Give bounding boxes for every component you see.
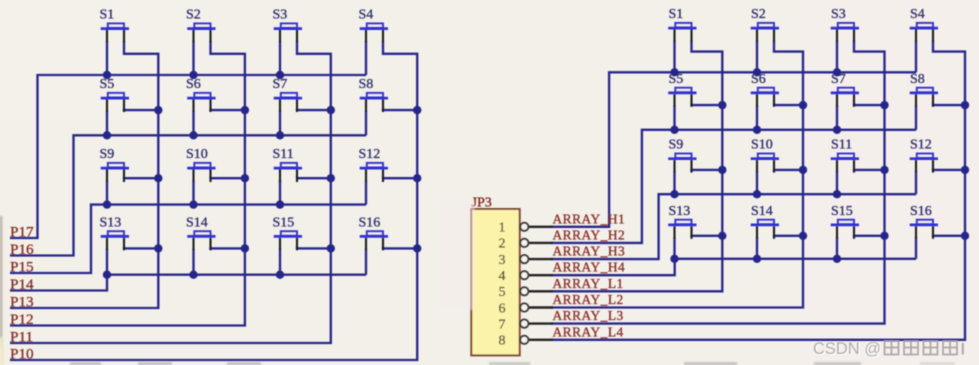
junction: column 3 / S7 elbow (right) (880, 101, 888, 109)
push-button switch S2 (left matrix) (186, 8, 216, 43)
svg-text:4: 4 (499, 269, 506, 284)
watermark text (813, 340, 963, 358)
svg-text:S10: S10 (186, 147, 208, 162)
svg-text:S2: S2 (751, 7, 766, 22)
JP3 pin 3 open-circle terminal (520, 255, 528, 263)
wire: S11 (left) left pin to row 3 wire (279, 181, 281, 205)
junction: row 1 wire / S3 left pin (right) (833, 68, 841, 76)
push-button switch S5 (left matrix) (100, 77, 130, 112)
push-button switch S4 (left matrix) (359, 8, 389, 43)
wire: net ARRAY_L3 - column 3 vertical from S3 elbow down to JP3 pin7 (551, 41, 885, 324)
wire: S15 (right) left pin to row 4 wire (836, 237, 838, 258)
junction: column 1 / S13 elbow (right) (718, 232, 726, 240)
svg-text:S1: S1 (100, 8, 115, 23)
wire: net P15 - row 3 horizontal, left drop to P15 stub (10, 205, 366, 273)
wire: S14 (left) left pin to row 4 wire (192, 249, 194, 275)
push-button switch S1 (right matrix) (668, 7, 696, 42)
svg-text:ARRAY_H2: ARRAY_H2 (553, 227, 626, 242)
svg-text:S12: S12 (359, 147, 381, 162)
junction: row 2 wire / S7 left pin (right) (833, 126, 841, 134)
wire: S16 (right) left pin to row 4 wire (915, 237, 917, 258)
svg-text:S13: S13 (100, 215, 122, 230)
wire: S10 (left) left pin to row 3 wire (192, 181, 194, 205)
wire: S13 (left) left pin to row 4 wire (106, 249, 108, 275)
wire: S3 (right) left pin to row 1 wire (836, 41, 838, 73)
svg-text:S15: S15 (273, 215, 295, 230)
svg-text:ARRAY_H4: ARRAY_H4 (553, 260, 626, 275)
wire: S6 (left) left pin to row 2 wire (192, 111, 194, 136)
svg-text:S15: S15 (831, 204, 853, 219)
wire: net P17 - row 1 horizontal, left drop to P17 stub (10, 75, 366, 238)
wire: S7 (right) left pin to row 2 wire (836, 105, 838, 130)
svg-text:P13: P13 (10, 294, 34, 311)
svg-text:ARRAY_L2: ARRAY_L2 (553, 292, 624, 307)
wire: S14 (left) right pin elbow to column 2 (211, 247, 245, 249)
wire: S5 (right) left pin to row 2 wire (673, 105, 675, 130)
junction: row 2 wire / S5 left pin (left) (103, 131, 111, 139)
JP3 pin 3 stub (528, 258, 553, 260)
wire: S8 (right) right pin elbow to column 4 (933, 103, 965, 105)
JP3 pin 2 open-circle terminal (520, 239, 528, 247)
svg-text:S7: S7 (273, 77, 288, 92)
push-button switch S9 (right matrix) (668, 138, 696, 173)
junction: row 4 wire / S14 left pin (right) (753, 255, 761, 263)
junction: column 2 / S6 elbow (right) (799, 101, 807, 109)
push-button switch S15 (right matrix) (831, 204, 859, 239)
wire: S11 (left) right pin elbow to column 3 (297, 177, 331, 180)
svg-text:S10: S10 (751, 138, 773, 153)
svg-text:S13: S13 (669, 204, 691, 219)
wire: net ARRAY_H2 - from JP3 pin2 to row 2 horizontal (551, 130, 916, 243)
wire: S15 (left) left pin to row 4 wire (279, 249, 281, 275)
junction: column 3 / S7 elbow (left) (327, 106, 335, 114)
wire: S6 (right) right pin elbow to column 2 (774, 103, 803, 105)
JP3 pin 8 open-circle terminal (520, 336, 528, 344)
push-button switch S14 (right matrix) (751, 204, 779, 239)
wire: S14 (right) left pin to row 4 wire (756, 237, 758, 258)
wire: S3 (left) left pin to row 1 wire (279, 41, 281, 75)
push-button switch S4 (right matrix) (910, 7, 938, 42)
wire: S12 (left) right pin elbow to column 4 (383, 177, 417, 180)
junction: row 3 wire / S11 left pin (left) (276, 200, 284, 208)
JP3 pin 7 stub (528, 322, 553, 324)
svg-text:S8: S8 (359, 77, 374, 92)
svg-text:P10: P10 (10, 346, 34, 363)
svg-text:S16: S16 (359, 215, 381, 230)
wire: net P12 - column 2 vertical from S2 elbow down, left to P12 stub (10, 41, 245, 326)
push-button switch S3 (right matrix) (831, 7, 859, 42)
push-button switch S12 (right matrix) (910, 138, 938, 173)
junction: row 1 wire / S2 left pin (left) (189, 71, 197, 79)
JP3 pin 2 stub (528, 242, 553, 244)
wire: S8 (left) left pin to row 2 wire (365, 111, 367, 136)
svg-text:S14: S14 (186, 215, 208, 230)
junction: row 1 wire / S1 left pin (left) (103, 71, 111, 79)
push-button switch S2 (right matrix) (751, 7, 779, 42)
push-button switch S16 (left matrix) (359, 215, 389, 250)
wire: S10 (right) left pin to row 3 wire (756, 171, 758, 194)
JP3 pin 5 open-circle terminal (520, 287, 528, 295)
push-button switch S3 (left matrix) (273, 8, 303, 43)
push-button switch S6 (right matrix) (751, 72, 779, 107)
push-button switch S14 (left matrix) (186, 215, 216, 250)
svg-text:CSDN @: CSDN @ (813, 340, 881, 358)
push-button switch S7 (right matrix) (831, 72, 859, 107)
svg-text:6: 6 (499, 301, 506, 316)
push-button switch S13 (right matrix) (668, 204, 696, 239)
wire: S15 (right) right pin elbow to column 3 (854, 234, 885, 237)
junction: row 1 wire / S1 left pin (right) (670, 68, 678, 76)
wire: net P13 - column 1 vertical from S1 elbow down, left to P13 stub (10, 41, 158, 308)
wire: S8 (left) right pin elbow to column 4 (383, 109, 417, 111)
wire: S9 (left) left pin to row 3 wire (106, 181, 108, 205)
wire: S2 (right) left pin to row 1 wire (756, 41, 758, 73)
wire: S5 (left) left pin to row 2 wire (106, 111, 108, 136)
junction: column 2 / S10 elbow (right) (799, 166, 807, 174)
svg-text:S9: S9 (669, 138, 684, 153)
wire: S16 (left) right pin elbow to column 4 (383, 247, 417, 249)
junction: column 4 / S16 elbow (right) (961, 232, 969, 240)
wire: S1 (right) left pin to row 1 wire (673, 41, 675, 73)
svg-text:P12: P12 (10, 311, 34, 328)
junction: row 4 wire / S13 left pin (right) (670, 255, 678, 263)
junction: column 4 / S8 elbow (left) (413, 106, 421, 114)
wire: net ARRAY_H3 - from JP3 pin3 to row 3 horizontal (551, 194, 916, 259)
photo artifact: screen-edge smudges (decorative) (440, 200, 475, 310)
wire: S4 (left) left pin to row 1 wire (365, 41, 367, 75)
junction: column 2 / S6 elbow (left) (241, 106, 249, 114)
junction: row 2 wire / S5 left pin (right) (670, 126, 678, 134)
wire: net ARRAY_L4 - column 4 vertical from S4 elbow down to JP3 pin8 (551, 41, 965, 340)
junction: row 4 wire / S13 left pin (left) (103, 271, 111, 279)
push-button switch S7 (left matrix) (273, 77, 303, 112)
JP3 pin 6 stub (528, 306, 553, 308)
push-button switch S13 (left matrix) (100, 215, 130, 250)
wire: net ARRAY_L2 - column 2 vertical from S2 elbow down to JP3 pin6 (551, 41, 803, 308)
svg-text:S4: S4 (359, 8, 374, 23)
svg-text:P14: P14 (10, 276, 34, 293)
push-button switch S1 (left matrix) (100, 8, 130, 43)
wire: S13 (right) left pin to row 4 wire (673, 237, 675, 258)
svg-text:S5: S5 (100, 77, 115, 92)
svg-text:S3: S3 (273, 8, 288, 23)
wire: S16 (left) left pin to row 4 wire (365, 249, 367, 275)
push-button switch S10 (left matrix) (186, 147, 216, 182)
wire: S11 (right) right pin elbow to column 3 (854, 168, 885, 171)
wire: net P11 - column 3 vertical from S3 elbow down, left to P11 stub (10, 41, 331, 343)
junction: column 2 / S10 elbow (left) (241, 174, 249, 182)
svg-text:S2: S2 (186, 8, 201, 23)
junction: column 1 / S5 elbow (right) (718, 101, 726, 109)
wire: S12 (left) left pin to row 3 wire (365, 181, 367, 205)
wire: S1 (left) left pin to row 1 wire (106, 41, 108, 75)
svg-text:S8: S8 (910, 72, 925, 87)
wire: S7 (right) right pin elbow to column 3 (854, 103, 885, 105)
wire: S6 (right) left pin to row 2 wire (756, 105, 758, 130)
push-button switch S15 (left matrix) (273, 215, 303, 250)
svg-text:ARRAY_L1: ARRAY_L1 (553, 276, 624, 291)
wire: S5 (right) right pin elbow to column 1 (692, 103, 723, 105)
junction: column 2 / S14 elbow (left) (241, 244, 249, 252)
wire: S7 (left) left pin to row 2 wire (279, 111, 281, 136)
svg-text:S11: S11 (831, 138, 852, 153)
wire: S12 (right) left pin to row 3 wire (915, 171, 917, 194)
junction: column 1 / S13 elbow (left) (154, 244, 162, 252)
svg-text:S4: S4 (910, 7, 925, 22)
svg-text:ARRAY_H3: ARRAY_H3 (553, 244, 626, 259)
junction: row 3 wire / S10 left pin (left) (189, 200, 197, 208)
svg-text:S14: S14 (751, 204, 773, 219)
svg-text:P16: P16 (10, 241, 34, 258)
svg-text:ARRAY_L4: ARRAY_L4 (553, 324, 624, 339)
wire: S5 (left) right pin elbow to column 1 (124, 109, 158, 111)
wire: S13 (left) right pin elbow to column 1 (124, 247, 158, 249)
svg-text:P11: P11 (10, 329, 33, 346)
svg-text:S6: S6 (186, 77, 201, 92)
junction: column 1 / S9 elbow (right) (718, 166, 726, 174)
junction: column 4 / S12 elbow (left) (413, 174, 421, 182)
JP3 pin 1 stub (528, 226, 553, 228)
svg-text:S3: S3 (831, 7, 846, 22)
junction: row 2 wire / S6 left pin (right) (753, 126, 761, 134)
push-button switch S9 (left matrix) (100, 147, 130, 182)
wire: S7 (left) right pin elbow to column 3 (297, 109, 331, 111)
svg-text:2: 2 (499, 237, 506, 252)
junction: column 3 / S11 elbow (right) (880, 166, 888, 174)
svg-text:5: 5 (499, 285, 506, 300)
wire: net P14 - stub to S13 left pin, row 4 horizontal (10, 275, 366, 291)
svg-text:ARRAY_L3: ARRAY_L3 (553, 308, 624, 323)
junction: row 3 wire / S9 left pin (left) (103, 200, 111, 208)
wire: S13 (right) right pin elbow to column 1 (692, 234, 723, 237)
connector JP3 body (471, 209, 519, 355)
wire: net ARRAY_H4 - from JP3 pin4 via S13 left pin to row 4 horizontal (551, 259, 916, 275)
junction: row 4 wire / S15 left pin (left) (276, 271, 284, 279)
junction: row 1 wire / S3 left pin (left) (276, 71, 284, 79)
JP3 pin 5 stub (528, 290, 553, 292)
svg-text:P17: P17 (10, 224, 34, 241)
wire: S12 (right) right pin elbow to column 4 (933, 168, 965, 171)
junction: column 1 / S9 elbow (left) (154, 174, 162, 182)
junction: column 4 / S16 elbow (left) (413, 244, 421, 252)
JP3 pin 7 open-circle terminal (520, 320, 528, 328)
svg-text:S11: S11 (273, 147, 294, 162)
svg-text:S1: S1 (669, 7, 684, 22)
junction: column 2 / S14 elbow (right) (799, 232, 807, 240)
wire: net ARRAY_L1 - column 1 vertical from S1 elbow down to JP3 pin5 (551, 41, 722, 292)
wire: S2 (left) left pin to row 1 wire (192, 41, 194, 75)
push-button switch S8 (right matrix) (910, 72, 938, 107)
svg-text:S12: S12 (910, 138, 932, 153)
JP3 pin 8 stub (528, 339, 553, 341)
svg-text:3: 3 (499, 253, 506, 268)
JP3 pin 4 stub (528, 274, 553, 276)
svg-text:8: 8 (499, 334, 506, 349)
junction: row 2 wire / S6 left pin (left) (189, 131, 197, 139)
svg-text:7: 7 (499, 317, 506, 332)
push-button switch S11 (right matrix) (831, 138, 859, 173)
svg-text:S9: S9 (100, 147, 115, 162)
wire: S8 (right) left pin to row 2 wire (915, 105, 917, 130)
junction: row 2 wire / S7 left pin (left) (276, 131, 284, 139)
JP3 pin 6 open-circle terminal (520, 303, 528, 311)
svg-text:ARRAY_H1: ARRAY_H1 (553, 211, 626, 226)
svg-text:S16: S16 (910, 204, 932, 219)
push-button switch S5 (right matrix) (668, 72, 696, 107)
wire: S15 (left) right pin elbow to column 3 (297, 247, 331, 249)
wire: net P10 - column 4 vertical from S4 elbow down, left to P10 stub (10, 41, 417, 360)
push-button switch S10 (right matrix) (751, 138, 779, 173)
wire: S9 (right) right pin elbow to column 1 (692, 168, 723, 171)
push-button switch S16 (right matrix) (910, 204, 938, 239)
junction: column 4 / S12 elbow (right) (961, 166, 969, 174)
wire: S10 (left) right pin elbow to column 2 (211, 177, 245, 180)
junction: column 4 / S8 elbow (right) (961, 101, 969, 109)
junction: column 3 / S11 elbow (left) (327, 174, 335, 182)
wire: S6 (left) right pin elbow to column 2 (211, 109, 245, 111)
junction: row 3 wire / S11 left pin (right) (833, 190, 841, 198)
wire: S14 (right) right pin elbow to column 2 (774, 234, 803, 237)
push-button switch S12 (left matrix) (359, 147, 389, 182)
junction: column 3 / S15 elbow (left) (327, 244, 335, 252)
wire: S11 (right) left pin to row 3 wire (836, 171, 838, 194)
junction: row 4 wire / S15 left pin (right) (833, 255, 841, 263)
junction: row 3 wire / S10 left pin (right) (753, 190, 761, 198)
JP3 pin 4 open-circle terminal (520, 271, 528, 279)
svg-text:1: 1 (499, 221, 506, 236)
wire: S4 (right) left pin to row 1 wire (915, 41, 917, 73)
push-button switch S11 (left matrix) (273, 147, 303, 182)
wire: S9 (left) right pin elbow to column 1 (124, 177, 158, 180)
wire: S16 (right) right pin elbow to column 4 (933, 234, 965, 237)
JP3 pin 1 open-circle terminal (520, 223, 528, 231)
push-button switch S6 (left matrix) (186, 77, 216, 112)
wire: net ARRAY_H1 - from JP3 pin1 to row 1 horizontal (551, 72, 916, 227)
junction: column 1 / S5 elbow (left) (154, 106, 162, 114)
push-button switch S8 (left matrix) (359, 77, 389, 112)
junction: column 3 / S15 elbow (right) (880, 232, 888, 240)
junction: row 4 wire / S14 left pin (left) (189, 271, 197, 279)
wire: net P16 - row 2 horizontal, left drop to P16 stub (10, 135, 366, 255)
junction: row 1 wire / S2 left pin (right) (753, 68, 761, 76)
wire: S9 (right) left pin to row 3 wire (673, 171, 675, 194)
wire: S10 (right) right pin elbow to column 2 (774, 168, 803, 171)
junction: row 3 wire / S9 left pin (right) (670, 190, 678, 198)
svg-text:P15: P15 (10, 259, 34, 276)
